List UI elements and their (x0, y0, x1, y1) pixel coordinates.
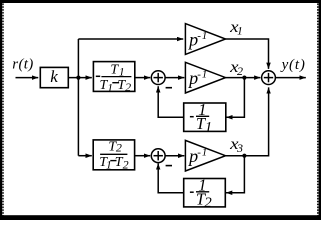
svg-text:-1: -1 (197, 69, 208, 81)
svg-text:2: 2 (237, 64, 243, 78)
svg-text:1: 1 (106, 160, 112, 172)
svg-text:2: 2 (204, 195, 212, 211)
svg-text:y(t): y(t) (280, 57, 306, 73)
svg-text:-1: -1 (197, 147, 208, 159)
svg-text:-1: -1 (197, 30, 208, 42)
svg-text:r(t): r(t) (12, 57, 33, 73)
svg-text:k: k (50, 67, 58, 86)
svg-text:1: 1 (205, 120, 213, 136)
svg-text:3: 3 (236, 141, 243, 155)
svg-text:2: 2 (125, 80, 131, 94)
svg-text:1: 1 (107, 82, 113, 94)
svg-text:2: 2 (116, 141, 122, 155)
svg-text:2: 2 (123, 157, 129, 171)
svg-text:1: 1 (119, 66, 125, 78)
svg-text:1: 1 (237, 25, 243, 37)
